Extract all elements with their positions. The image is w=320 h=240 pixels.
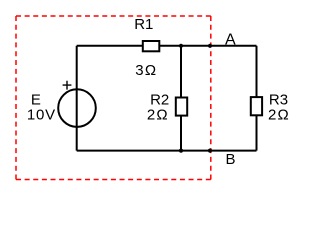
svg-text:R1: R1: [134, 16, 153, 33]
svg-text:10V: 10V: [27, 106, 56, 123]
wire bottom: [77, 150, 257, 152]
resistor R1 body: [143, 41, 160, 51]
dashed network boundary box: right edge: [210, 16, 212, 180]
svg-text:A: A: [225, 32, 236, 49]
polarity plus: [63, 81, 72, 90]
resistor R2 body: [176, 98, 187, 116]
node B dot: [208, 149, 212, 153]
resistor R3 body: [251, 97, 262, 115]
node dot top at R2: [179, 44, 183, 48]
node A dot: [208, 44, 212, 48]
wire left through source: [76, 46, 78, 151]
wire R2 branch: [180, 46, 182, 151]
dashed network boundary box: left edge: [15, 16, 17, 180]
wire top: source to node A corner: [77, 45, 257, 47]
svg-text:B: B: [226, 151, 236, 168]
dashed network boundary box: bottom edge: [16, 179, 211, 181]
node dot bottom at R2: [179, 149, 183, 153]
svg-text:2Ω: 2Ω: [268, 106, 290, 123]
svg-text:3Ω: 3Ω: [135, 62, 157, 79]
wire right: A down to R3 and to bottom: [256, 46, 258, 151]
svg-text:2Ω: 2Ω: [147, 106, 169, 123]
dashed network boundary box: top edge: [16, 15, 211, 17]
voltage source E: [58, 89, 96, 127]
